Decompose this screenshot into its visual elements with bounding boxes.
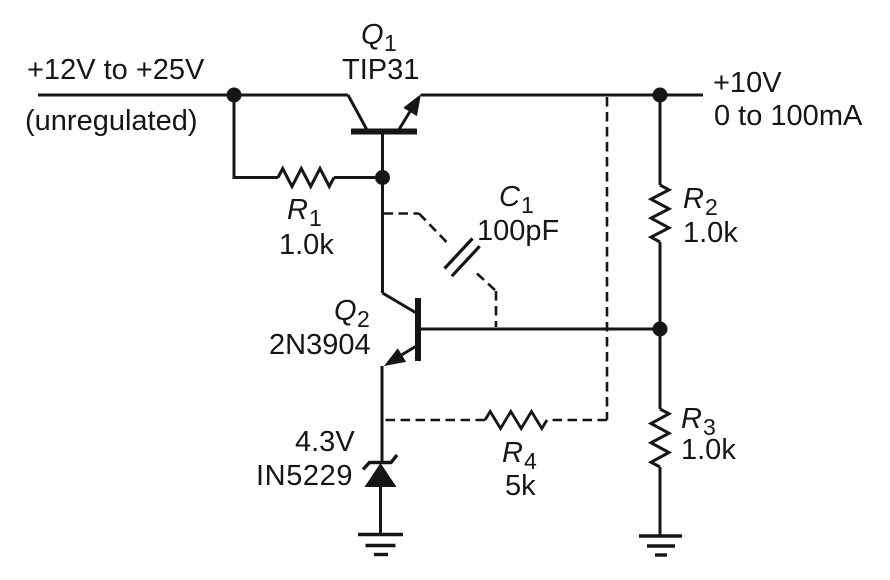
svg-text:1: 1 (384, 30, 397, 56)
wire: mid node down to R3 (659, 329, 662, 409)
transistor Q1 (348, 94, 421, 132)
resistor R4 (485, 412, 547, 429)
svg-text:Q: Q (334, 295, 357, 327)
svg-text:(unregulated): (unregulated) (25, 105, 198, 137)
wire: unregulated input rail (38, 94, 348, 97)
capacitor C1 (445, 239, 480, 277)
svg-text:1: 1 (309, 205, 322, 231)
zener diode D1 IN5229 (363, 455, 397, 534)
svg-text:2N3904: 2N3904 (269, 329, 371, 361)
svg-text:R: R (502, 437, 523, 469)
svg-text:1.0k: 1.0k (681, 434, 736, 466)
resistor R3 (651, 409, 669, 467)
resistor R1 (278, 169, 334, 187)
wire: output junction down to R2 (659, 95, 662, 185)
svg-text:R: R (287, 194, 308, 226)
wire: R1 to Q1 base node (334, 176, 382, 179)
wire: dashed R4 to Q2 emitter (382, 419, 485, 422)
wire: R2 to mid node (659, 242, 662, 329)
svg-text:100pF: 100pF (477, 215, 559, 247)
svg-text:R: R (681, 403, 702, 435)
resistor R2 (651, 185, 669, 242)
wire: drop from input junction to R1 (234, 95, 278, 178)
svg-text:TIP31: TIP31 (342, 54, 419, 86)
capacitor C1 dashed lead (right) (477, 274, 496, 328)
wire: Q1 base lead down (381, 135, 384, 294)
wire: Q2 emitter down to zener (381, 366, 384, 462)
wire: R3 to ground (659, 467, 662, 536)
ground (right) (639, 536, 682, 555)
svg-text:1.0k: 1.0k (279, 229, 334, 261)
svg-text:C: C (499, 181, 521, 213)
svg-text:1.0k: 1.0k (683, 217, 738, 249)
wire: dashed feedback from output rail (547, 97, 607, 420)
node: divider mid junction (653, 322, 668, 337)
svg-text:Q: Q (361, 19, 384, 51)
capacitor C1 dashed lead (left) (384, 214, 448, 243)
node: input junction (227, 88, 242, 103)
svg-text:+12V to +25V: +12V to +25V (27, 54, 205, 86)
svg-text:0 to 100mA: 0 to 100mA (714, 100, 863, 132)
svg-text:IN5229: IN5229 (256, 460, 353, 492)
svg-text:5k: 5k (505, 470, 536, 502)
svg-text:+10V: +10V (713, 67, 782, 99)
ground (left) (358, 535, 403, 555)
transistor Q2 (383, 293, 419, 366)
node: output junction (653, 88, 668, 103)
node: Q1 base junction (375, 170, 390, 185)
wire: Q2 base to divider (421, 328, 661, 331)
svg-text:R: R (683, 183, 704, 215)
svg-text:4.3V: 4.3V (295, 426, 355, 458)
wire: output rail from Q1 emitter (421, 94, 703, 97)
